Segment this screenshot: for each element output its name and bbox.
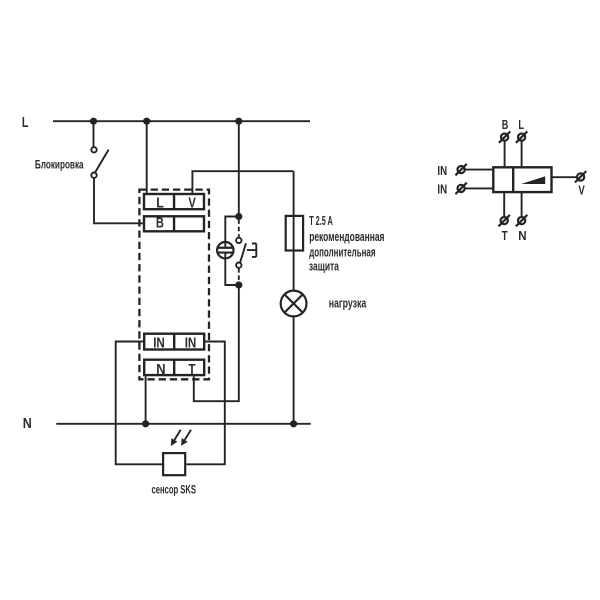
wire: terminal IN (right) to sensor [186,342,225,465]
svg-text:N: N [23,416,32,432]
svg-text:L: L [22,115,29,131]
wire: fuse branch vertical [293,171,295,290]
svg-text:N: N [518,228,526,243]
svg-text:V: V [188,195,196,211]
terminal block row B [144,216,204,231]
glow lamp H1 [217,242,233,258]
svg-text:IN: IN [437,182,447,197]
junction: pushbutton bottom node [235,281,242,288]
junction: L line / terminal L drop [143,118,150,125]
sensor light arrow 1 [174,430,180,440]
svg-text:IN: IN [437,163,447,178]
wire: block to T [503,193,505,216]
junction: pushbutton top node [235,213,242,220]
dimmer wedge [521,176,545,184]
terminal B (screw) [501,134,508,141]
wire: glow lamp branch (top) [225,217,239,248]
pushbutton S2 upper contact [236,238,241,243]
wire: L line down to blocking switch [93,121,95,147]
svg-text:T: T [502,228,508,243]
device outline (dashed) [139,190,209,380]
wire: pushbutton bottom node to terminal T [194,285,239,401]
fuse F1 [286,216,303,251]
wire: terminal IN (left) to sensor [116,342,162,465]
terminal N (screw) [518,217,525,224]
wire: lamp to N line [293,317,295,423]
svg-text:Блокировка: Блокировка [35,157,84,171]
junction: L line / blocking switch [90,118,97,125]
wire: L to block [521,141,523,166]
lamp E1 (load) [281,291,307,317]
wire: glow lamp branch (bottom) [225,253,239,285]
svg-text:B: B [156,216,164,232]
svg-text:нагрузка: нагрузка [329,297,367,311]
dimmer block U1 [493,167,551,192]
wire: L supply line [53,120,310,122]
svg-text:B: B [502,117,509,132]
wire: B to block [504,141,506,166]
wire: IN top to block [465,169,492,171]
terminal block row IN/IN [144,334,204,350]
svg-text:рекомендованная: рекомендованная [309,230,384,244]
svg-text:L: L [156,195,164,211]
svg-text:дополнительная: дополнительная [309,246,375,260]
wire (dashed): lower contact to bottom node [238,268,240,283]
svg-text:T: T [188,362,195,378]
svg-text:защита: защита [309,259,340,273]
pushbutton S2 lower contact [236,263,241,268]
terminal block row N/T [144,360,204,375]
svg-text:сенсор SKS: сенсор SKS [152,483,197,497]
wire: N supply line [56,423,310,425]
terminal IN bottom (screw) [458,185,465,192]
sensor B1 SKS box [163,453,185,475]
svg-text:IN: IN [153,336,165,352]
terminal V (screw) [577,173,584,180]
wire: L line down to pushbutton node [238,121,240,216]
svg-text:L: L [518,117,524,132]
wire: blocking switch to terminal B [94,178,143,223]
svg-text:N: N [156,362,165,378]
terminal block row L/V [144,194,204,209]
junction: terminal N / N line [142,420,149,427]
wire: terminal N to N line [145,376,147,423]
terminal L (screw) [518,134,525,141]
switch S1 Блокировка lower contact [91,173,96,178]
wire (dashed): top node to contact [238,220,240,238]
switch S1 Блокировка upper contact [91,147,96,152]
pushbutton S2 lever [240,243,246,262]
wire: terminal V up and right to fuse branch [192,171,293,193]
terminal IN top (screw) [458,166,465,173]
sensor light arrow 2 [185,430,191,440]
terminal T (screw) [501,217,508,224]
pushbutton S2 actuator [247,244,256,257]
wire: IN bottom to block [465,187,492,189]
wire: block to N [521,193,523,216]
junction: L line / pushbutton branch [235,118,242,125]
wire: block to V [552,176,576,178]
junction: lamp branch / N line [290,420,297,427]
switch S1 Блокировка lever [95,150,109,173]
svg-text:T 2.5 A: T 2.5 A [309,214,333,228]
wire: L junction to terminal L [146,121,148,193]
svg-text:IN: IN [185,336,197,352]
svg-text:V: V [578,183,585,198]
